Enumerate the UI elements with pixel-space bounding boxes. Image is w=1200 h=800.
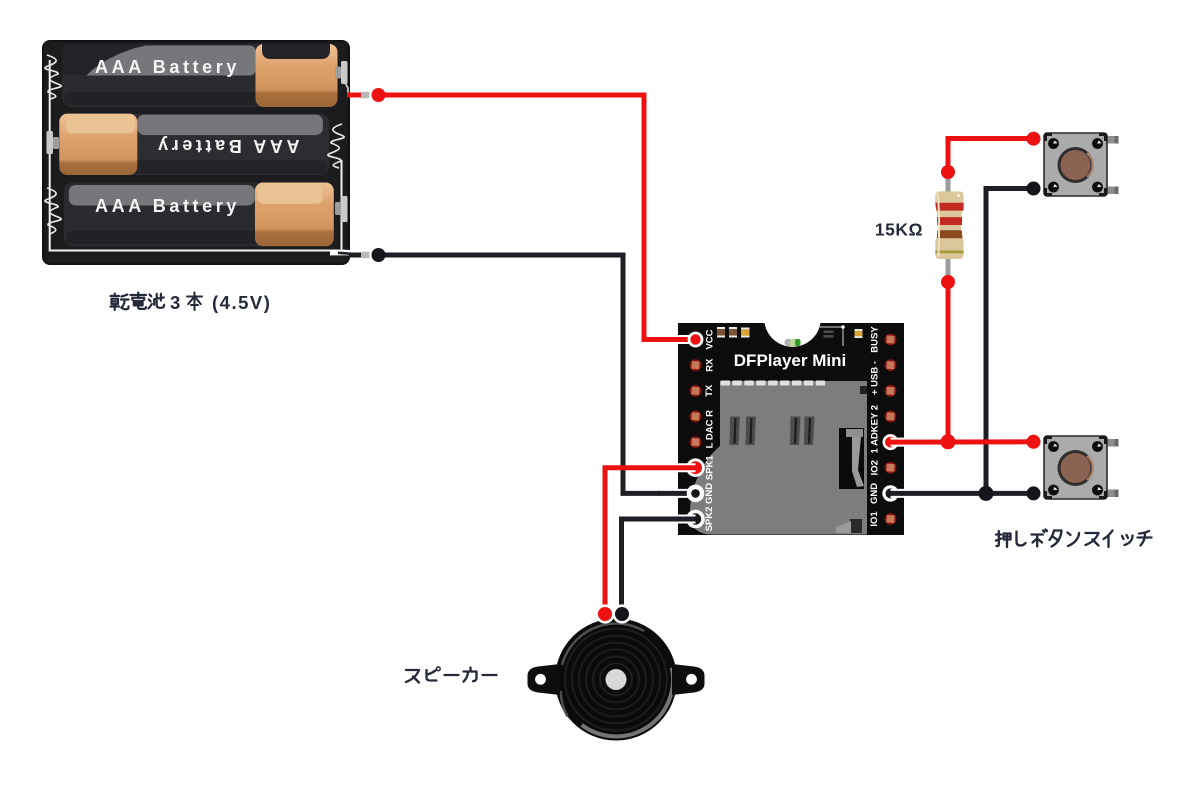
svg-text:SPK2: SPK2 (704, 507, 715, 532)
wire red battery+ to VCC (378, 95, 660, 340)
speaker right ear (672, 664, 705, 695)
glyph イ (1104, 531, 1113, 548)
pin RX (690, 359, 702, 371)
card contact pads (721, 381, 826, 386)
node battery+ (372, 88, 386, 102)
glyph し (1017, 532, 1026, 546)
LED green (785, 339, 801, 346)
wire internal bottom black core (330, 250, 351, 256)
pin IO1 (885, 513, 897, 525)
pin USB+ (885, 385, 897, 397)
node battery- (372, 248, 386, 262)
svg-text:BUSY: BUSY (870, 326, 881, 353)
ferrule positive (361, 92, 370, 98)
svg-text:+ USB -: + USB - (870, 361, 881, 395)
svg-text:AAA Battery: AAA Battery (95, 196, 240, 216)
node SW1 black (1027, 182, 1041, 196)
svg-text:1 ADKEY 2: 1 ADKEY 2 (869, 405, 880, 454)
svg-text:GND: GND (704, 483, 715, 504)
battery B1 negative spring (45, 55, 61, 99)
glyph ン (1068, 533, 1080, 547)
SMD resistor 2 (729, 327, 737, 338)
svg-text:(4.5V): (4.5V) (212, 292, 271, 313)
card detect mechanism (839, 428, 867, 516)
battery B2 left contact (47, 131, 60, 154)
node resistor bottom (941, 275, 955, 289)
pin ADKEY1 connected (883, 434, 899, 450)
pin VCC connected (688, 332, 704, 348)
ferrule negative (361, 252, 370, 258)
glyph チ (1138, 531, 1152, 546)
SMD wire antenna mark (818, 327, 843, 346)
svg-text:SPK1: SPK1 (704, 455, 715, 481)
pin DAC_L (690, 436, 702, 448)
svg-text:VCC: VCC (705, 329, 716, 349)
pin IO2 (885, 462, 897, 474)
pin GND right connected (882, 485, 898, 501)
wire red ADKEY1 to button SW2 (891, 438, 911, 447)
battery B3 positive contact (335, 196, 348, 222)
node ADKEY junction (941, 434, 956, 449)
glyph 本 (187, 293, 202, 311)
svg-text:RX: RX (704, 358, 715, 372)
svg-text:L DAC R: L DAC R (704, 410, 715, 448)
label battery (乾電池３本（4.5V）) (111, 293, 165, 311)
glyph 池 (149, 294, 165, 309)
glyph ス (1086, 533, 1099, 546)
SMD crystal bars (824, 331, 834, 338)
wire red resistor bottom to junction (946, 282, 951, 442)
glyph 押 (996, 531, 1011, 547)
pin SPK1 connected (686, 458, 705, 477)
wire red VCC approach (668, 335, 696, 344)
pin USB- (885, 359, 897, 371)
pin SPK2 connected (686, 510, 705, 529)
battery B3 left spring (45, 188, 61, 234)
battery holder internal white wiring (50, 60, 345, 251)
svg-text:IO1: IO1 (869, 511, 880, 527)
glyph タ (1050, 531, 1062, 547)
node resistor top (941, 165, 955, 179)
battery B1 (top) (62, 44, 338, 107)
wire black battery- to GND left (378, 255, 660, 493)
node GND junction (979, 486, 994, 501)
wire black SPK2 to speaker (660, 515, 696, 524)
card slot grooves (730, 417, 815, 446)
glyph ボ (1032, 530, 1048, 547)
pin GND left connected (687, 485, 705, 503)
speaker terminal nodes (595, 604, 614, 623)
svg-text:AAA Battery: AAA Battery (95, 57, 240, 77)
glyph 乾 (111, 294, 129, 311)
wire red SPK1 to speaker (660, 463, 696, 472)
pin labels left (704, 329, 716, 531)
wire battery positive stub (347, 93, 361, 98)
microSD card slot (690, 381, 867, 535)
glyph ー (2) (483, 674, 497, 676)
svg-text:DFPlayer Mini: DFPlayer Mini (734, 351, 846, 370)
speaker SP1 (555, 619, 677, 741)
resistor R1 leads (946, 176, 951, 278)
glyph ピ (427, 670, 437, 681)
label buttons (押しボタンスイッチ) (996, 530, 1152, 548)
speaker left ear (528, 664, 561, 695)
battery B1 positive contact (335, 61, 348, 84)
battery B2 right spring (328, 124, 344, 168)
DFPlayer board U1 (678, 323, 904, 535)
board top notch (764, 290, 821, 347)
svg-text:AAA Battery: AAA Battery (155, 136, 300, 156)
SMD resistor 1 (717, 327, 725, 338)
svg-text:IO2: IO2 (869, 460, 880, 475)
glyph ー (1) (445, 674, 459, 676)
card top-right notch (860, 386, 867, 394)
wire red resistor top to button SW1 (948, 139, 1034, 173)
resistor R1 body (935, 191, 963, 259)
pin labels right (869, 326, 881, 527)
pin DAC_R (690, 411, 702, 423)
label speaker (スピーカー) (406, 667, 497, 683)
battery holder BT1 case (43, 41, 349, 264)
SMD capacitor yellow (741, 328, 750, 338)
pin ADKEY2 (885, 411, 897, 423)
glyph ス (406, 670, 419, 683)
glyph カ (464, 668, 477, 682)
wire battery negative stub (349, 253, 361, 258)
battery B2 (middle, flipped) (59, 114, 329, 175)
wire black GND left approach (668, 489, 696, 498)
node SW2 black (1027, 486, 1041, 500)
svg-text:3: 3 (170, 292, 180, 313)
glyph 電 (131, 293, 147, 309)
battery B3 (bottom) (64, 183, 334, 247)
svg-text:15KΩ: 15KΩ (875, 220, 923, 240)
svg-text:GND: GND (869, 483, 880, 504)
push button SW1 (top) (1044, 133, 1119, 196)
SMD capacitor right (855, 329, 863, 338)
pin BUSY (885, 334, 897, 346)
push button SW2 (bottom) (1044, 436, 1119, 499)
node SW1 red (1027, 132, 1041, 146)
pin TX (690, 385, 702, 397)
svg-text:TX: TX (704, 384, 715, 397)
glyph ッ (1122, 535, 1133, 545)
wire internal right vertical (341, 160, 343, 251)
card bottom notch (850, 519, 862, 533)
wire black button SW1 to junction to GND right (986, 189, 1034, 494)
node SW2 red (1027, 435, 1041, 449)
